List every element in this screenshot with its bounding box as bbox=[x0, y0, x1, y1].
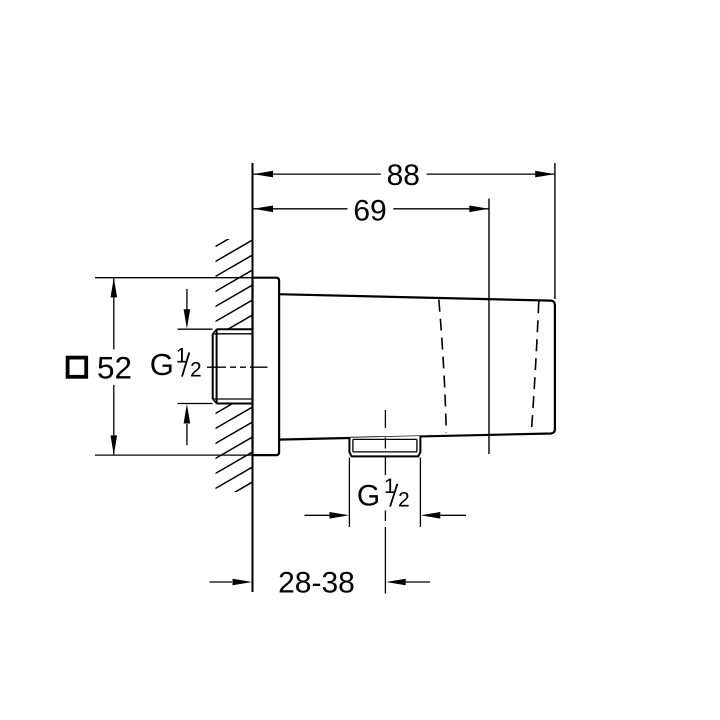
label G 1/2 outlet bbox=[357, 475, 410, 512]
svg-text:G: G bbox=[357, 479, 380, 512]
svg-text:2: 2 bbox=[190, 358, 202, 381]
inlet nipple G1/2 thread bbox=[213, 329, 253, 403]
outlet nipple G1/2 thread bbox=[349, 436, 420, 456]
svg-text:69: 69 bbox=[353, 195, 386, 228]
outlet thread size dimension arrows bbox=[305, 458, 467, 528]
label G 1/2 inlet bbox=[150, 345, 202, 383]
escutcheon flange bbox=[253, 278, 280, 455]
inlet axis centerline bbox=[207, 366, 268, 368]
svg-text:88: 88 bbox=[387, 159, 420, 192]
wall face line bbox=[252, 163, 254, 592]
outlet axis centerline bbox=[384, 410, 386, 594]
svg-text:28-38: 28-38 bbox=[278, 566, 355, 599]
svg-text:G: G bbox=[150, 347, 174, 382]
svg-text:2: 2 bbox=[398, 489, 410, 512]
dimension 69 bbox=[253, 195, 489, 455]
body hidden edge right (dashed) bbox=[531, 301, 539, 432]
inlet thread size dimension arrows bbox=[178, 289, 213, 445]
wall hatching upper bbox=[214, 224, 254, 352]
body hidden edge left (dashed) bbox=[439, 300, 447, 433]
body bbox=[278, 294, 555, 439]
dimension 88 bbox=[253, 159, 555, 299]
dimension 52 with square symbol bbox=[68, 278, 252, 455]
svg-text:52: 52 bbox=[97, 350, 132, 386]
wall hatching lower bbox=[214, 391, 254, 519]
dimension 28-38 bbox=[210, 566, 431, 599]
